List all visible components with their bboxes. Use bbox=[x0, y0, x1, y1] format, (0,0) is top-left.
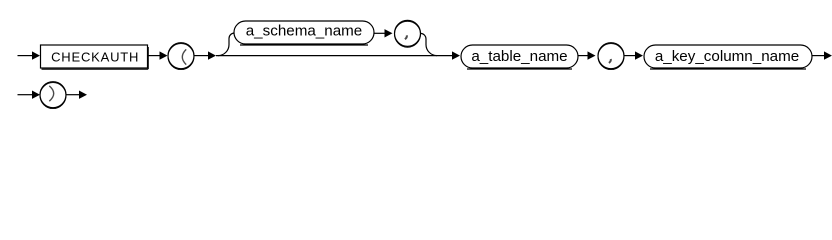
svg-text:a_table_name: a_table_name bbox=[471, 48, 567, 65]
arrowhead into ( bbox=[160, 51, 168, 59]
wire exit row1 bbox=[812, 55, 825, 57]
arrowhead into comma bbox=[588, 51, 596, 59]
arrowhead row2 exit bbox=[79, 91, 87, 99]
wire row2 exit bbox=[66, 94, 80, 96]
svg-text:a_schema_name: a_schema_name bbox=[246, 22, 363, 39]
arrowhead into CHECKAUTH bbox=[32, 51, 40, 59]
keyword box CHECKAUTH bbox=[41, 45, 148, 68]
arrowhead into ) bbox=[32, 91, 40, 99]
wire bypass main line bbox=[216, 55, 453, 57]
terminal circle upper comma bbox=[395, 20, 421, 46]
svg-text:CHECKAUTH: CHECKAUTH bbox=[51, 50, 139, 65]
wire box to ( bbox=[149, 55, 161, 57]
arrowhead at branch bbox=[208, 51, 216, 59]
arrowhead into a_table_name bbox=[452, 51, 460, 59]
wire branch curve up-left bbox=[218, 33, 235, 56]
svg-text:a_key_column_name: a_key_column_name bbox=[655, 48, 799, 65]
terminal circle ( bbox=[168, 43, 194, 69]
wire row2 entry bbox=[18, 94, 33, 96]
railroad syntax diagram: CHECKAUTH ( [a_schema_name ,] a_table_name , a_key_column_name ) bbox=[0, 0, 832, 118]
arrowhead into a_key_column_name bbox=[635, 51, 643, 59]
arrowhead into upper comma bbox=[385, 29, 393, 37]
wire a_table_name to comma bbox=[578, 55, 588, 57]
wire bubble to comma bbox=[374, 32, 385, 34]
nonterminal bubble a_key_column_name bbox=[644, 45, 812, 68]
wire ( to branch bbox=[194, 55, 209, 57]
wire branch curve down-right bbox=[421, 33, 438, 55]
wire comma to a_key_column_name bbox=[624, 55, 636, 57]
terminal circle ) bbox=[40, 82, 66, 108]
nonterminal bubble a_schema_name bbox=[234, 21, 374, 44]
nonterminal bubble a_table_name bbox=[461, 45, 578, 68]
arrowhead row1 exit bbox=[824, 51, 832, 59]
terminal circle comma bbox=[598, 43, 624, 69]
wire row1 entry bbox=[18, 55, 34, 57]
